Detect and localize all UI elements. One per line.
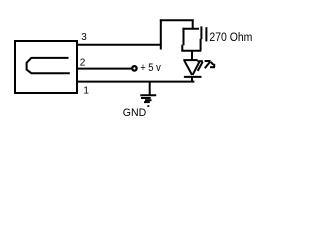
node +5V terminal circle xyxy=(132,66,137,71)
svg-text:GND: GND xyxy=(123,107,146,119)
connector J1 box xyxy=(15,41,77,93)
wire LED to bottom rail xyxy=(191,77,193,82)
ground hatch 3 xyxy=(144,101,150,103)
ground hatch 1 xyxy=(141,97,151,99)
svg-text:1: 1 xyxy=(83,85,89,96)
resistor R1 right edge xyxy=(200,26,203,50)
LED D1 triangle right slant xyxy=(193,61,200,75)
wire top horizontal xyxy=(160,19,194,21)
ground stub wire xyxy=(149,82,151,95)
svg-text:270 Ohm: 270 Ohm xyxy=(209,30,252,44)
LED light arrow 2 foot xyxy=(210,66,215,68)
wire pin3 horizontal xyxy=(77,44,162,46)
resistor R1 top edge xyxy=(182,28,199,30)
wire resistor to LED xyxy=(191,50,193,60)
ground bar xyxy=(140,94,156,96)
LED D1 cathode bar xyxy=(184,76,202,78)
LED light arrow 1 shaft xyxy=(198,62,203,71)
LED light arrow 2 shaft xyxy=(205,62,210,69)
resistor R1 left edge xyxy=(182,28,183,51)
resistor R1 bottom edge xyxy=(181,50,201,52)
apostrophe mark after GND xyxy=(147,105,149,107)
wire drop to resistor xyxy=(192,19,194,29)
connector J1 plug symbol xyxy=(27,58,70,73)
svg-text:2: 2 xyxy=(80,58,86,69)
value cursor bar before 270 xyxy=(205,27,207,41)
wire pin2 horizontal xyxy=(77,68,132,70)
LED D1 triangle left slant xyxy=(184,61,192,75)
svg-text:3: 3 xyxy=(81,32,87,43)
wire pin1 horizontal xyxy=(77,81,194,83)
LED light arrow 2 hook xyxy=(211,62,213,65)
ground hatch 2 xyxy=(145,99,152,101)
svg-text:+ 5 v: + 5 v xyxy=(140,62,161,74)
LED D1 triangle top bar xyxy=(183,59,197,61)
LED light arrow 2 head bar xyxy=(205,60,211,62)
LED light arrow 1 head bar xyxy=(197,60,203,62)
LED light arrow 2 tick xyxy=(213,64,215,67)
wire top jog vertical xyxy=(160,19,162,49)
